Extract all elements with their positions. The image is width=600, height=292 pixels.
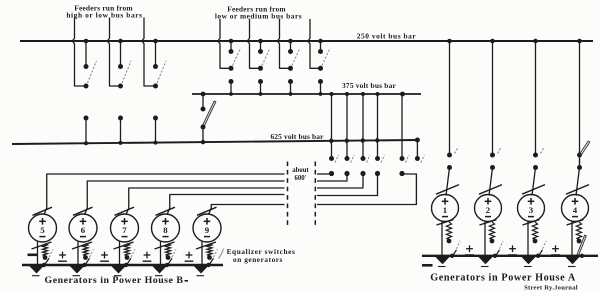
node: F1 upper contact bbox=[84, 64, 89, 69]
node: generator G4 equalizer stub bbox=[577, 239, 582, 244]
node: F6 switch pivot bbox=[288, 66, 293, 71]
wire: generator G8 equalizer riser and trunk (left half) bbox=[167, 195, 285, 215]
label: generator G7 polarity + bbox=[121, 220, 128, 222]
wire: F1 upper contact stub from 250V bus bbox=[85, 41, 87, 67]
switch blade (open) equalizer switch G7 bbox=[127, 258, 132, 265]
node: equalizer pivot G1 on negative bus bbox=[450, 254, 454, 258]
250 volt bus bar bbox=[20, 40, 593, 42]
node: tie switch pivot bbox=[201, 125, 206, 130]
node: F4 lower contact bbox=[229, 79, 234, 84]
generator G6 bbox=[69, 214, 97, 242]
switch blade (closed) at generator G2 bottom bbox=[480, 220, 497, 225]
svg-text:2: 2 bbox=[486, 205, 491, 215]
resistor: generator G2 shunt field rheostat bbox=[489, 222, 494, 239]
node: generator G4 switch pivot bbox=[577, 165, 582, 170]
node: F4 switch pivot bbox=[229, 66, 234, 71]
node: drop D2 junction on 625V bus bbox=[345, 139, 349, 143]
label: generator G6 polarity + bbox=[80, 220, 87, 222]
node: F3 lower contact bbox=[153, 116, 158, 121]
svg-text:3: 3 bbox=[529, 205, 534, 215]
wire: F7 lower contact stub to 375V bus bbox=[320, 82, 322, 95]
wire: drop D5 from 375V bus to 625V bus bbox=[401, 94, 403, 140]
node: F3 switch pivot bbox=[153, 84, 158, 89]
wire: generator G2 lead to armature bbox=[489, 168, 493, 196]
node: drop D3 tap on 375V bus bbox=[361, 92, 365, 96]
node: drop D1 pivot bbox=[329, 171, 334, 176]
wire: generator G2 bottom lead to negative bus bbox=[484, 221, 486, 256]
svg-text:625 volt bus bar: 625 volt bus bar bbox=[270, 132, 324, 141]
node: generator G2 tap on 250V bus bbox=[490, 39, 495, 44]
node: F6 lower contact bbox=[288, 79, 293, 84]
node: feeder F4 tap on 250V bus bbox=[229, 39, 234, 44]
node: generator G3 switch pivot bbox=[533, 165, 538, 170]
switch blade (open) F3 selector bbox=[157, 61, 166, 83]
switch blade (open) equalizer switch G4 bbox=[577, 235, 586, 255]
node: drop D6 upper contact bbox=[415, 156, 420, 161]
resistor: generator G7 shunt field rheostat bbox=[124, 244, 129, 256]
section break dashed line (left) bbox=[287, 162, 289, 228]
switch blade (closed) at generator G6 bottom bbox=[72, 242, 92, 249]
node: feeder F5 tap on 250V bus bbox=[258, 39, 263, 44]
wire: F2 lower contact stub to 625V bus bbox=[120, 118, 122, 143]
wire: generator G9 bottom lead to negative bus bbox=[201, 241, 203, 265]
wire: generator G4 riser from 250V bus bbox=[579, 41, 581, 155]
switch blade (open) drop D3 bbox=[367, 155, 371, 163]
node: F1 lower contact bbox=[84, 116, 89, 121]
wire: generator G2 riser from 250V bus bbox=[492, 41, 494, 155]
generator G9 bbox=[193, 214, 221, 242]
node: feeder F1 tap on 250V bus bbox=[84, 39, 89, 44]
node: drop D1 upper contact bbox=[329, 156, 334, 161]
node: generator G1 switch upper contact bbox=[447, 153, 452, 158]
node: tie switch tap on 375V bus bbox=[201, 92, 206, 97]
wire: tie switch lower stub to 625V bus bbox=[202, 127, 204, 142]
node: equalizer pivot G8 on negative bus bbox=[165, 263, 169, 267]
node: drop D2 upper contact bbox=[345, 156, 350, 161]
node: drop D4 pivot bbox=[375, 171, 380, 176]
switch blade (open) drop D5 bbox=[406, 155, 410, 163]
resistor: generator G6 shunt field rheostat bbox=[83, 244, 88, 256]
section break dashed line (right) bbox=[314, 162, 316, 228]
node: feeder F7 tap on 250V bus bbox=[318, 39, 323, 44]
switch blade (closed) at generator G4 bottom bbox=[567, 220, 584, 225]
negative bus of Power House B bbox=[22, 264, 223, 266]
node: equalizer pivot G7 on negative bus bbox=[124, 263, 128, 267]
svg-text:low or medium bus bars: low or medium bus bars bbox=[215, 12, 302, 21]
polarity mark plus-minus on A bus bbox=[509, 248, 516, 250]
svg-text:Generators in Power House A: Generators in Power House A bbox=[430, 272, 576, 283]
node: drop D5 upper contact bbox=[400, 156, 405, 161]
polarity mark plus-minus on B bus bbox=[144, 254, 151, 256]
switch blade (open) drop D6 bbox=[421, 155, 425, 163]
svg-text:on generators: on generators bbox=[233, 255, 283, 264]
switch blade (closed) at generator G3 top bbox=[522, 185, 545, 195]
switch blade (closed) at generator G9 bottom bbox=[196, 242, 216, 249]
wire: generator G9 equalizer riser and trunk (left half) bbox=[209, 205, 285, 215]
ground at generator G1 bbox=[435, 257, 450, 265]
artifact dash after title B bbox=[185, 280, 189, 282]
feeder F6 wire (low/medium group) bbox=[277, 19, 290, 68]
label: generator G2 polarity + bbox=[485, 200, 492, 202]
node: generator G3 equalizer stub bbox=[533, 239, 538, 244]
switch blade (closed) at generator G1 top bbox=[436, 185, 459, 195]
node: drop D3 upper contact bbox=[361, 156, 366, 161]
svg-text:1: 1 bbox=[443, 205, 447, 215]
switch blade (open) equalizer switch G1 bbox=[453, 250, 457, 256]
wire: tie switch upper stub bbox=[202, 94, 204, 109]
wire: generator G6 equalizer riser and trunk (left half) bbox=[85, 181, 285, 215]
label: generator G1 polarity - bbox=[442, 216, 448, 218]
feeder F4 wire (low/medium group) bbox=[218, 19, 231, 68]
label: generator G5 polarity - bbox=[40, 236, 46, 238]
ground at generator G5 bbox=[29, 266, 44, 274]
wire: generator G4 bottom lead to negative bus bbox=[571, 221, 573, 256]
switch blade (open) drop D1 bbox=[335, 155, 339, 163]
node: F5 upper contact bbox=[258, 49, 263, 54]
switch blade (open) generator G3 main switch bbox=[541, 148, 545, 154]
switch blade (closed) at generator G6 top bbox=[73, 207, 93, 215]
svg-text:375 volt bus bar: 375 volt bus bar bbox=[342, 81, 396, 90]
node: drop D1 junction on 625V bus bbox=[330, 139, 334, 143]
625 volt bus bar bbox=[12, 140, 417, 144]
wire: equalizer trunk 2 (right half) bbox=[317, 175, 347, 181]
node: F5 switch pivot bbox=[258, 66, 263, 71]
generator G3 bbox=[518, 195, 545, 222]
wire: equalizer trunk 5 (right half) bbox=[317, 174, 416, 205]
node: 625V bus right end bbox=[415, 138, 420, 143]
node: F4 tap on 375V bus bbox=[229, 92, 233, 96]
node: generator G4 tap on 250V bus bbox=[577, 39, 582, 44]
node: drop D2 tap on 375V bus bbox=[345, 92, 349, 96]
node: generator G2 equalizer stub bbox=[490, 239, 495, 244]
wire: F6 lower contact stub to 375V bus bbox=[290, 82, 292, 95]
polarity mark plus-minus on B bus bbox=[101, 254, 108, 256]
svg-text:Street Ry.Journal: Street Ry.Journal bbox=[524, 284, 578, 291]
switch blade (closed) at generator G5 top bbox=[33, 207, 53, 215]
ground at generator G9 bbox=[194, 266, 209, 274]
svg-text:Generators in Power House B: Generators in Power House B bbox=[45, 275, 184, 286]
node: equalizer pivot G5 on negative bus bbox=[42, 263, 46, 267]
switch blade (open) equalizer switch G5 bbox=[45, 258, 50, 265]
label: generator G9 polarity - bbox=[204, 236, 210, 238]
node: F7 switch pivot bbox=[318, 66, 323, 71]
node: equalizer pivot G9 on negative bus bbox=[206, 263, 210, 267]
node: drop D3 junction on 625V bus bbox=[361, 139, 365, 143]
resistor: generator G3 shunt field rheostat bbox=[532, 222, 537, 239]
wire: F5 lower contact stub to 375V bus bbox=[260, 82, 262, 95]
negative bus of Power House A bbox=[422, 255, 598, 257]
feeder F1 wire (high/low group) bbox=[72, 18, 86, 87]
resistor: generator G1 shunt field rheostat bbox=[446, 222, 451, 239]
node: drop D4 junction on 625V bus bbox=[376, 138, 380, 142]
wire: generator G1 bottom lead to negative bus bbox=[441, 221, 443, 256]
node: generator G2 switch upper contact bbox=[490, 153, 495, 158]
svg-text:5: 5 bbox=[40, 225, 45, 235]
switch blade (open) equalizer switch G8 bbox=[168, 258, 173, 265]
feeder F2 wire (high/low group) bbox=[107, 18, 120, 87]
wire: generator G7 equalizer riser and trunk (left half) bbox=[126, 188, 285, 215]
node: generator G5 equalizer stub bbox=[43, 255, 48, 260]
node: F5 tap on 375V bus bbox=[259, 92, 263, 96]
375 volt bus bar bbox=[192, 93, 421, 95]
wire: F3 upper contact stub from 250V bus bbox=[155, 41, 157, 67]
label: generator G4 polarity - bbox=[572, 216, 578, 218]
resistor: generator G9 shunt field rheostat bbox=[207, 244, 212, 256]
label: generator G3 polarity + bbox=[528, 200, 535, 202]
node: generator G1 equalizer stub bbox=[447, 239, 452, 244]
svg-text:high or low bus bars: high or low bus bars bbox=[66, 11, 142, 20]
wire: F1 lower contact stub to 625V bus bbox=[85, 118, 87, 143]
wire: equalizer trunk 1 (right half) bbox=[317, 173, 332, 175]
label: generator G6 polarity - bbox=[80, 236, 86, 238]
wire: drop D3 from 375V bus through 625V bus bbox=[361, 94, 363, 159]
switch blade (closed) at generator G1 bottom bbox=[437, 220, 454, 225]
svg-text:8: 8 bbox=[163, 225, 168, 235]
switch blade (open) bus-tie bbox=[203, 101, 216, 126]
node: generator G1 switch pivot bbox=[447, 165, 452, 170]
switch blade (closed) at generator G8 bottom bbox=[155, 242, 175, 249]
switch blade (open) generator G1 main switch bbox=[455, 148, 459, 154]
label: generator G1 polarity + bbox=[442, 200, 449, 202]
wire: F4 lower contact stub to 375V bus bbox=[230, 82, 232, 95]
wire: F3 lower contact stub to 625V bus bbox=[155, 118, 157, 143]
label: generator G8 polarity + bbox=[162, 220, 169, 222]
node: feeder F3 tap on 250V bus bbox=[153, 39, 158, 44]
svg-text:250 volt bus bar: 250 volt bus bar bbox=[357, 31, 417, 40]
node: generator G6 equalizer stub bbox=[83, 255, 88, 260]
wire: drop D5 stub below 625V bus bbox=[401, 140, 403, 158]
wire: equalizer trunk 4 (right half) bbox=[317, 175, 378, 196]
wire: F2 upper contact stub from 250V bus bbox=[120, 41, 122, 67]
switch blade (open) F6 selector bbox=[292, 48, 300, 66]
node: equalizer pivot G6 on negative bus bbox=[82, 263, 86, 267]
node: tie switch tap on 625V bus bbox=[201, 140, 205, 144]
switch blade (closed) at generator G7 bottom bbox=[114, 242, 134, 249]
generator G8 bbox=[152, 214, 180, 242]
wire: generator G1 riser from 250V bus bbox=[449, 41, 451, 155]
label: generator G8 polarity - bbox=[163, 236, 169, 238]
node: F2 switch pivot bbox=[118, 84, 123, 89]
switch blade (open) F7 selector bbox=[322, 48, 330, 66]
node: generator G1 tap on 250V bus bbox=[447, 39, 452, 44]
wire: generator G4 lead to armature bbox=[576, 168, 580, 196]
switch blade (closed) at generator G4 top bbox=[566, 185, 589, 195]
node: drop D3 pivot bbox=[360, 171, 365, 176]
switch blade (open) equalizer switch G6 bbox=[85, 258, 90, 265]
wire: drop D2 from 375V bus through 625V bus bbox=[345, 94, 347, 159]
node: generator G7 equalizer stub bbox=[125, 255, 130, 260]
label: generator G3 polarity - bbox=[528, 216, 534, 218]
node: F5 lower contact bbox=[258, 79, 263, 84]
node: feeder F6 tap on 250V bus bbox=[288, 39, 293, 44]
node: generator G3 switch upper contact bbox=[533, 153, 538, 158]
wire: drop D1 from 375V bus through 625V bus bbox=[330, 94, 332, 159]
node: generator G4 switch upper contact bbox=[577, 153, 582, 158]
switch blade (open) equalizer switch G9 bbox=[209, 258, 214, 265]
wire: generator G3 bottom lead to negative bus bbox=[527, 221, 529, 256]
node: F1 tap on 625V bus bbox=[84, 141, 88, 145]
svg-text:600′: 600′ bbox=[294, 175, 306, 182]
switch blade (open) drop D4 bbox=[381, 155, 385, 163]
wire: drop D6 stub from 625V bus end bbox=[416, 140, 418, 159]
wire: generator G4 switch closed link bbox=[579, 155, 581, 168]
generator G5 bbox=[29, 214, 57, 242]
ground at generator G7 bbox=[111, 266, 126, 274]
switch blade (open) drop D2 bbox=[351, 155, 355, 163]
polarity mark plus-minus on B bus bbox=[59, 254, 66, 256]
switch blade (closed) at generator G8 top bbox=[156, 207, 176, 215]
ground at generator G6 bbox=[70, 266, 85, 274]
node: F7 upper contact bbox=[318, 49, 323, 54]
polarity mark plus-minus on A bus bbox=[552, 248, 559, 250]
wire: F6 upper contact stub from 250V bus bbox=[290, 41, 292, 52]
node: drop D5 pivot bbox=[399, 171, 404, 176]
switch blade (open) generator G2 main switch bbox=[498, 148, 502, 154]
node: F2 tap on 625V bus bbox=[119, 141, 123, 145]
polarity mark plus-minus on B bus bbox=[186, 254, 193, 256]
label: generator G9 polarity + bbox=[204, 220, 211, 222]
polarity mark minus at Power House B bus bbox=[28, 254, 39, 257]
feeder F7 wire (low/medium group) bbox=[308, 19, 321, 68]
node: drop D1 tap on 375V bus bbox=[330, 92, 334, 96]
node: feeder F2 tap on 250V bus bbox=[118, 39, 123, 44]
node: tie switch upper contact bbox=[201, 107, 206, 112]
svg-text:4: 4 bbox=[573, 205, 578, 215]
wire: drop D4 from 375V bus through 625V bus bbox=[376, 94, 378, 159]
node: F3 tap on 625V bus bbox=[154, 141, 158, 145]
switch blade (open) F5 selector bbox=[262, 48, 270, 66]
node: F3 upper contact bbox=[153, 64, 158, 69]
polarity mark plus-minus on A bus bbox=[466, 248, 473, 250]
generator G7 bbox=[111, 214, 139, 242]
generator G1 bbox=[432, 195, 459, 222]
resistor: generator G4 shunt field rheostat bbox=[576, 222, 581, 239]
label: generator G5 polarity + bbox=[39, 220, 46, 222]
switch blade (open) F4 selector bbox=[233, 48, 241, 66]
node: drop D4 upper contact bbox=[375, 156, 380, 161]
switch blade (closed) at generator G2 top bbox=[479, 185, 502, 195]
svg-text:about: about bbox=[292, 167, 309, 174]
generator G4 bbox=[562, 195, 589, 222]
node: F2 lower contact bbox=[118, 116, 123, 121]
wire: generator G5 bottom lead to negative bus bbox=[37, 241, 39, 265]
ground at generator G3 bbox=[521, 257, 536, 265]
label: generator G4 polarity + bbox=[572, 200, 579, 202]
node: F4 upper contact bbox=[229, 49, 234, 54]
feeder F5 wire (low/medium group) bbox=[247, 19, 260, 68]
wire: generator G7 bottom lead to negative bus bbox=[119, 241, 121, 265]
node: drop D4 tap on 375V bus bbox=[376, 92, 380, 96]
wire: F7 upper contact stub from 250V bus bbox=[320, 41, 322, 52]
switch blade (open) F2 selector bbox=[122, 61, 131, 83]
wire: generator G3 riser from 250V bus bbox=[535, 41, 537, 155]
svg-text:9: 9 bbox=[205, 225, 210, 235]
node: drop D5 tap on 375V bus bbox=[400, 92, 405, 97]
switch blade (open) equalizer switch G2 bbox=[496, 250, 500, 256]
node: F7 tap on 375V bus bbox=[319, 92, 323, 96]
node: F6 tap on 375V bus bbox=[289, 92, 293, 96]
pointer to equalizer switch bbox=[219, 249, 224, 259]
wire: generator G8 bottom lead to negative bus bbox=[160, 241, 162, 265]
switch blade (closed) at generator G9 top bbox=[197, 207, 217, 215]
switch blade (closed) at generator G3 bottom bbox=[523, 220, 540, 225]
polarity mark minus at Power House A bus bbox=[422, 264, 433, 267]
svg-text:7: 7 bbox=[122, 225, 127, 235]
ground at generator G4 bbox=[565, 257, 580, 265]
node: F1 switch pivot bbox=[84, 84, 89, 89]
ground at generator G2 bbox=[478, 257, 493, 265]
feeder F3 wire (high/low group) bbox=[142, 18, 156, 87]
node: equalizer pivot G3 on negative bus bbox=[536, 254, 540, 258]
wire: equalizer trunk 3 (right half) bbox=[317, 175, 363, 188]
node: generator G9 equalizer stub bbox=[207, 255, 212, 260]
wire: generator G5 equalizer riser and trunk (left half) bbox=[44, 174, 285, 215]
switch blade (closed) at generator G7 top bbox=[115, 207, 135, 215]
generator G2 bbox=[475, 195, 502, 222]
resistor: generator G8 shunt field rheostat bbox=[165, 244, 170, 256]
wire: F5 upper contact stub from 250V bus bbox=[260, 41, 262, 52]
label: generator G2 polarity - bbox=[485, 216, 491, 218]
node: generator G2 switch pivot bbox=[490, 165, 495, 170]
svg-text:6: 6 bbox=[81, 225, 86, 235]
node: drop D2 pivot bbox=[344, 171, 349, 176]
wire: F4 upper contact stub from 250V bus bbox=[230, 41, 232, 52]
node: generator G3 tap on 250V bus bbox=[533, 39, 538, 44]
node: F6 upper contact bbox=[288, 49, 293, 54]
ground at generator G8 bbox=[152, 266, 167, 274]
resistor: generator G5 shunt field rheostat bbox=[42, 244, 47, 256]
node: F2 upper contact bbox=[118, 64, 123, 69]
wire: generator G1 lead to armature bbox=[446, 168, 450, 196]
switch blade (open) F1 selector bbox=[88, 61, 97, 83]
node: generator G8 equalizer stub bbox=[166, 255, 171, 260]
wire: generator G6 bottom lead to negative bus bbox=[77, 241, 79, 265]
node: F7 lower contact bbox=[318, 79, 323, 84]
node: equalizer pivot G2 on negative bus bbox=[493, 254, 497, 258]
switch blade (open) equalizer switch G3 bbox=[539, 250, 543, 256]
switch blade (closed) at generator G5 bottom bbox=[32, 242, 52, 249]
wire: generator G3 lead to armature bbox=[532, 168, 536, 196]
label: generator G7 polarity - bbox=[122, 236, 128, 238]
node: equalizer pivot G4 on negative bus bbox=[580, 254, 584, 258]
switch blade (open) generator G4 main switch bbox=[580, 141, 590, 155]
